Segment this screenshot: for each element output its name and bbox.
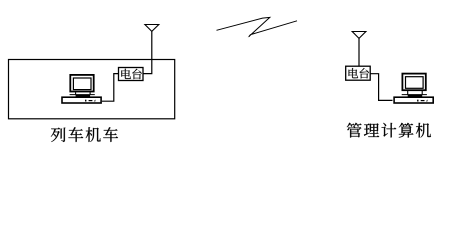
radio unit 电台 (left) 电台 [119, 68, 144, 81]
wire: radio link zigzag [217, 17, 298, 36]
computer PC2 (management) [394, 74, 433, 103]
wire: right antenna stem [358, 38, 360, 66]
wire: locomotive boundary box [9, 60, 175, 119]
node B: right antenna [352, 32, 366, 39]
wire: right radio to computer [370, 74, 392, 101]
wire: zigzag pen tip [248, 35, 251, 37]
label: 管理计算机 [347, 123, 362, 138]
wire: left antenna stem [143, 31, 152, 73]
computer PC1 (locomotive) [62, 75, 101, 103]
label: 列车机车 [51, 128, 66, 142]
wire: left radio to computer [102, 74, 119, 102]
radio unit 电台 (right) 电台 [346, 66, 371, 80]
node A: left antenna [145, 25, 159, 32]
